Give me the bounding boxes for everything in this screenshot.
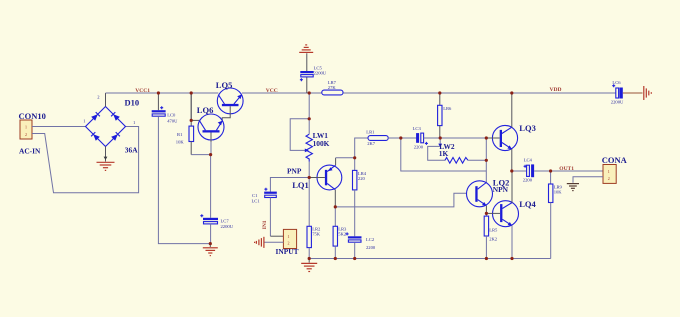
junction output LR9	[549, 169, 552, 172]
resistor LR7 on rail	[322, 80, 343, 95]
capacitor LC5	[300, 53, 327, 93]
wire LQ1 collector node to LQ2 base	[335, 193, 466, 207]
resistor LR1	[366, 129, 388, 146]
ground (top, LC5)	[299, 45, 313, 53]
capacitor C1 LC1	[252, 178, 310, 204]
svg-text:LC3: LC3	[413, 126, 422, 131]
wire LC4 to CONA pin1	[534, 170, 603, 172]
diode D10 top-left	[91, 114, 98, 121]
potentiometer LW2	[428, 138, 487, 163]
wire bridge top vertex to VCC1 rail	[105, 93, 107, 107]
svg-text:1: 1	[288, 234, 290, 239]
junction LQ6 collector node	[190, 119, 193, 122]
svg-text:10K: 10K	[554, 189, 563, 194]
wire LC6 to ground	[623, 92, 643, 94]
capacitor LC2	[346, 232, 376, 250]
svg-text:2K7: 2K7	[367, 141, 376, 146]
resistor LR4	[353, 158, 367, 190]
diode D10 bottom-left	[93, 134, 100, 141]
diode D10 bottom-right	[111, 134, 118, 141]
junction LW2 right terminal node	[485, 159, 488, 162]
svg-text:LR6: LR6	[443, 106, 452, 111]
junction LC3 right / LW2 wiper node	[439, 136, 442, 139]
wire VCC1 rail	[106, 92, 219, 94]
svg-text:LR5: LR5	[489, 227, 498, 232]
svg-text:36A: 36A	[125, 146, 138, 155]
svg-text:VDD: VDD	[550, 87, 562, 93]
wire output line LQ3/LQ4 node to LC4	[512, 170, 527, 172]
ground rail bottom	[309, 258, 551, 260]
connector INPUT	[276, 229, 299, 256]
svg-text:1: 1	[25, 125, 27, 130]
transistor LQ4	[486, 199, 536, 227]
svg-text:2: 2	[288, 241, 290, 246]
svg-text:OUT1: OUT1	[559, 166, 574, 172]
wire LQ3 collector to rail	[511, 93, 513, 127]
wire LR4 bottom to LC2	[354, 190, 356, 236]
wire feedback rail to LQ3 base	[440, 137, 486, 139]
resistor R1	[176, 93, 194, 155]
junction LQ3 base node	[485, 136, 488, 139]
svg-text:LC2: LC2	[366, 237, 375, 242]
svg-text:2200U: 2200U	[611, 100, 624, 105]
diode D10 top-right	[113, 114, 120, 121]
ground (right, LC6)	[644, 86, 652, 100]
wire rail VDD to LC6	[512, 92, 616, 94]
svg-text:2K2: 2K2	[489, 236, 498, 241]
svg-text:LC0: LC0	[167, 113, 176, 118]
wire INPUT pin2 to ground	[265, 241, 284, 243]
wire LQ1 emitter node	[336, 157, 355, 159]
wire LQ1 emitter riser	[335, 158, 337, 165]
wire riser LQ3 base / LW2 / LQ2 collector	[485, 138, 487, 183]
svg-text:VCC: VCC	[266, 88, 278, 94]
ground (bridge negative)	[97, 162, 115, 170]
svg-text:75K: 75K	[312, 232, 321, 237]
wire LQ3 emitter to output line	[511, 149, 513, 171]
svg-text:C1: C1	[252, 193, 258, 198]
capacitor LC6	[611, 80, 624, 105]
svg-text:2200U: 2200U	[221, 224, 234, 229]
wire LQ6 base down	[210, 142, 212, 155]
junction ground rail LC2	[353, 257, 356, 260]
resistor LR3	[333, 207, 347, 259]
svg-text:1K: 1K	[439, 149, 449, 158]
transistor LQ1	[292, 165, 342, 190]
junction LQ4 base / LR5 node	[485, 212, 488, 215]
wire LQ1 collector riser	[334, 190, 336, 207]
wire LC2 bottom to ground rail	[354, 242, 356, 258]
ground (LC7 / left filter)	[203, 244, 218, 256]
junction LQ1 emitter node	[353, 156, 356, 159]
svg-text:INPUT: INPUT	[276, 247, 299, 256]
svg-text:LQ3: LQ3	[519, 123, 536, 133]
transistor LQ6	[197, 105, 224, 142]
svg-text:CON10: CON10	[19, 111, 46, 121]
svg-text:D10: D10	[125, 97, 140, 107]
svg-text:LC6: LC6	[612, 80, 621, 85]
svg-text:470U: 470U	[167, 118, 178, 123]
bridge rectifier D10	[83, 94, 139, 154]
junction ground rail LQ4 emitter	[510, 257, 513, 260]
wire LQ6 collector to rail riser	[190, 93, 192, 120]
junction output line LQ3/LQ4	[510, 169, 513, 172]
potentiometer LW1	[290, 93, 329, 162]
svg-text:27K: 27K	[328, 85, 337, 90]
junction LR1/LC3 left node	[399, 136, 402, 139]
wire LQ1 emitter node up to LR1	[355, 138, 368, 158]
svg-text:LQ4: LQ4	[519, 199, 536, 209]
svg-text:IN1: IN1	[262, 220, 268, 229]
wire CON10 pin1 to bridge left vertex	[32, 126, 86, 128]
transistor LQ3	[486, 123, 536, 151]
wire CONA pin2 to ground	[573, 177, 603, 183]
svg-text:LC4: LC4	[524, 157, 533, 162]
svg-text:LR1: LR1	[366, 129, 375, 134]
svg-text:R1: R1	[177, 132, 183, 137]
svg-text:NPN: NPN	[493, 185, 509, 194]
junction rail LC0	[157, 91, 160, 94]
svg-text:LQ6: LQ6	[197, 105, 214, 115]
junction rail R1	[190, 91, 193, 94]
svg-text:5K2: 5K2	[338, 232, 347, 237]
connector CONA	[602, 155, 628, 184]
svg-text:CONA: CONA	[602, 155, 628, 165]
resistor LR9	[549, 171, 563, 259]
junction ground rail LR3	[334, 257, 337, 260]
wire R1 bottom to LQ6 base junction	[191, 154, 210, 156]
svg-text:2200: 2200	[523, 178, 533, 183]
svg-text:LC1: LC1	[252, 198, 261, 203]
svg-text:10K: 10K	[176, 139, 185, 144]
wire LR1 to LC3 node	[388, 137, 401, 139]
resistor LR6	[438, 93, 452, 138]
svg-text:2200U: 2200U	[314, 70, 327, 75]
svg-text:1: 1	[608, 169, 610, 174]
wire LQ4 collector riser	[511, 171, 513, 203]
resistor LR5	[484, 213, 498, 258]
wire CON10 pin2 loop to bridge right vertex	[32, 127, 139, 193]
wire LQ4 emitter to ground rail	[511, 226, 513, 259]
svg-text:220: 220	[358, 176, 366, 181]
svg-text:2: 2	[608, 176, 610, 181]
wire LQ2 emitter to LQ4 base node	[485, 206, 487, 214]
svg-text:2200: 2200	[366, 245, 376, 250]
junction LC7 ground node	[209, 242, 212, 245]
svg-text:LQ5: LQ5	[216, 80, 233, 90]
capacitor LC4	[523, 157, 534, 182]
junction LW1 wiper top	[308, 117, 311, 120]
ground (bottom rail)	[301, 259, 317, 272]
capacitor LC0	[152, 93, 178, 123]
ground (CONA, dark)	[567, 184, 579, 191]
junction rail LR6	[438, 91, 441, 94]
junction ground rail LR2	[308, 257, 311, 260]
ground (input, left-pointing)	[255, 237, 264, 248]
wire LQ6 base node down to LC7	[210, 155, 212, 218]
connector CON10	[19, 111, 46, 139]
capacitor LC3	[401, 126, 440, 149]
svg-text:100K: 100K	[313, 139, 330, 148]
junction LQ1 collector / LR3 node	[334, 205, 337, 208]
junction rail LC5/LW1	[308, 91, 311, 94]
svg-text:2: 2	[25, 132, 27, 137]
resistor LR2	[307, 226, 321, 258]
wire R1 junction to LQ6 collector	[191, 119, 199, 121]
junction rail LQ3 collector	[510, 91, 513, 94]
svg-text:PNP: PNP	[287, 167, 302, 176]
transistor LQ5	[216, 80, 243, 121]
wire LC3 left node down and across	[401, 138, 487, 171]
svg-text:2200: 2200	[414, 145, 424, 150]
wire rail LR7 to LR6 junction	[343, 92, 440, 94]
junction LQ6 base node	[209, 153, 212, 156]
capacitor LC7	[200, 214, 233, 229]
wire rail LR6 to LQ3 collector junction	[440, 92, 512, 94]
wire LC7 bottom to ground	[210, 224, 212, 244]
wire LW1 bottom to LQ1 base node	[308, 162, 310, 227]
transistor LQ2	[467, 177, 510, 207]
junction LQ1 base node	[308, 176, 311, 179]
wire C1 to INPUT pin1	[269, 198, 271, 237]
svg-text:AC-IN: AC-IN	[19, 146, 41, 155]
junction ground rail LR5	[485, 257, 488, 260]
wire bridge bottom vertex to ground	[105, 147, 107, 162]
wire rail LQ5 emitter to LC5 junction	[242, 92, 322, 94]
wire LC0 bottom to ground rail	[158, 116, 210, 243]
svg-text:LQ1: LQ1	[292, 180, 309, 190]
